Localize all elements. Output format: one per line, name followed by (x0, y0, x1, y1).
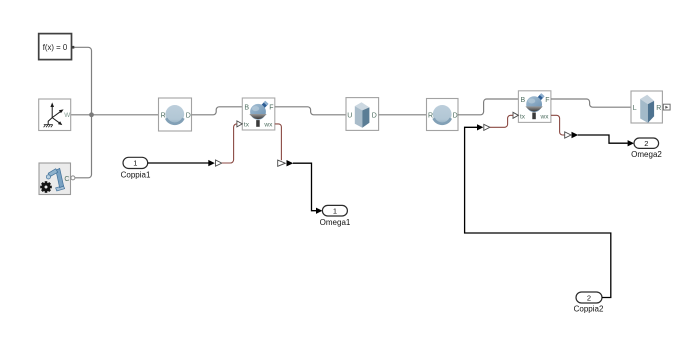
svg-text:Omega2: Omega2 (631, 150, 662, 159)
wire from solver down to mechanism C port (74, 47, 92, 178)
svg-text:2: 2 (587, 293, 591, 302)
svg-text:D: D (372, 113, 377, 120)
brick block (U-D) (346, 98, 379, 131)
wire world W port to circle block R port (71, 114, 159, 116)
svg-text:R: R (656, 105, 661, 112)
physical signal wire from joint1 wx down (275, 124, 282, 160)
svg-text:Coppia2: Coppia2 (574, 304, 604, 313)
rotational interface block 1 (R-D) (159, 98, 192, 131)
arrow into Omega2 (628, 140, 634, 146)
inport Coppia2 (576, 292, 602, 303)
rotational interface block 2 (R-D) (427, 99, 459, 131)
svg-text:1: 1 (133, 159, 137, 168)
inport Coppia1 (123, 157, 148, 168)
mechanism configuration block (39, 163, 75, 195)
svg-text:tx: tx (244, 121, 250, 128)
svg-text:Omega1: Omega1 (320, 218, 351, 227)
collapsed port marker (663, 104, 670, 110)
wire brick D to circle2 R (379, 114, 427, 116)
arrow (477, 124, 483, 130)
svg-text:D: D (186, 112, 191, 119)
physical signal wire to tx1 (222, 124, 237, 163)
wire circle1 D to joint1 B (192, 107, 243, 115)
svg-text:2: 2 (644, 139, 648, 148)
wire to Omega1 (293, 163, 316, 211)
svg-text:wx: wx (263, 121, 273, 128)
svg-text:R: R (428, 112, 433, 119)
svg-text:Coppia1: Coppia1 (121, 171, 151, 180)
tx1 input triangle (237, 121, 242, 127)
revolute joint block 1 (242, 98, 274, 130)
outport Omega2 (634, 138, 659, 148)
wire Coppia1 to converter (148, 162, 209, 164)
arrow (287, 160, 294, 166)
outport Omega1 (322, 205, 347, 216)
arrow (208, 160, 215, 166)
tx2 input triangle (513, 112, 518, 118)
solver config block f(x)=0 (39, 34, 75, 60)
svg-text:R: R (161, 112, 166, 119)
svg-text:U: U (347, 113, 352, 120)
ps triangle (484, 124, 490, 130)
ps triangle (565, 132, 571, 138)
svg-text:B: B (521, 97, 526, 104)
revolute joint block 2 (518, 91, 551, 123)
svg-text:F: F (545, 97, 549, 104)
wire to Omega2 (578, 135, 628, 143)
ps triangle (278, 160, 286, 166)
ps triangle (216, 160, 222, 166)
world frame block (39, 99, 71, 131)
wire Coppia2 up and around to converter (465, 127, 611, 297)
svg-text:1: 1 (333, 207, 337, 216)
node junction (89, 112, 94, 117)
physical signal wire to tx2 (490, 115, 513, 127)
wire joint2 F to solid L (551, 99, 631, 107)
arrow into Omega1 (316, 208, 322, 214)
arrow (572, 132, 579, 138)
svg-text:f(x) = 0: f(x) = 0 (43, 43, 68, 52)
svg-text:B: B (244, 105, 249, 112)
svg-text:C: C (64, 176, 69, 183)
svg-text:tx: tx (520, 113, 526, 120)
solid block (L-R) (631, 91, 662, 123)
svg-text:W: W (64, 112, 70, 119)
wire circle2 D to joint2 B (458, 99, 518, 115)
svg-text:L: L (633, 105, 637, 112)
wire joint1 F to brick U (275, 107, 346, 115)
physical signal wire from joint2 wx (551, 115, 564, 135)
svg-text:D: D (453, 112, 458, 119)
svg-text:wx: wx (540, 113, 550, 120)
svg-text:F: F (269, 105, 273, 112)
